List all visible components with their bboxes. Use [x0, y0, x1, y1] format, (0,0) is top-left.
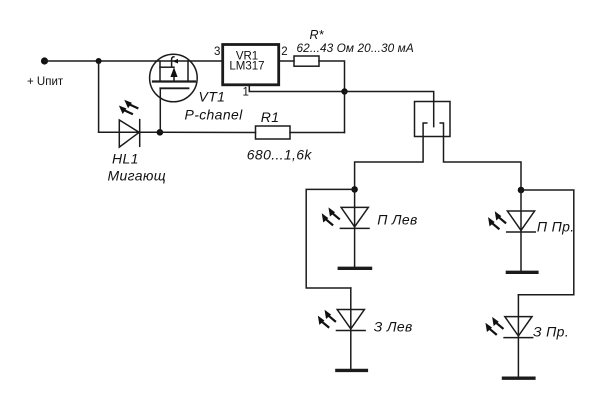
- svg-text:HL1: HL1: [112, 151, 139, 167]
- LED З Пр.: [483, 295, 533, 377]
- LED HL1: [99, 97, 160, 147]
- ground П Лев: [339, 267, 370, 270]
- wire pin 1: [249, 85, 344, 92]
- svg-text:+ Uпит: + Uпит: [27, 76, 64, 88]
- wire pin 2 to R*: [279, 60, 294, 62]
- svg-text:З Лев: З Лев: [374, 319, 413, 335]
- svg-text:П Пр.: П Пр.: [537, 219, 575, 235]
- wire node to switch: [345, 92, 434, 127]
- svg-text:Мигающ: Мигающ: [108, 168, 167, 184]
- svg-text:R1: R1: [261, 109, 280, 125]
- svg-text:LM317: LM317: [229, 60, 264, 72]
- node gate/HL1 junction: [157, 129, 164, 136]
- LED З Лев: [315, 288, 365, 369]
- wire left drop to HL1: [99, 61, 120, 132]
- svg-text:2: 2: [281, 46, 287, 58]
- resistor R*: [294, 56, 319, 66]
- node pin1/R* junction: [341, 88, 347, 94]
- terminal + Uпит: [41, 57, 48, 64]
- svg-text:П Лев: П Лев: [377, 212, 417, 228]
- svg-text:62...43 Ом 20...30 мА: 62...43 Ом 20...30 мА: [297, 41, 414, 55]
- LED П Лев: [319, 189, 369, 266]
- wire HL1 node to R1: [160, 131, 256, 133]
- svg-text:P-chanel: P-chanel: [185, 107, 244, 123]
- svg-text:R*: R*: [310, 28, 325, 42]
- ground П Пр.: [507, 271, 537, 274]
- svg-text:VT1: VT1: [199, 89, 226, 105]
- node right lamp junction: [518, 187, 525, 194]
- regulator VR1 LM317: [223, 45, 279, 85]
- wire R1 to vertical: [290, 132, 345, 134]
- svg-text:З Пр.: З Пр.: [533, 324, 569, 340]
- svg-text:3: 3: [214, 46, 220, 58]
- LED П Пр.: [485, 190, 535, 271]
- wire top rail from terminal to VR1 pin 3: [45, 60, 223, 62]
- transistor VT1 (P-MOSFET): [150, 54, 198, 132]
- node junction supply: [96, 58, 102, 64]
- ground З Лев: [337, 369, 367, 372]
- wire R* to node: [319, 61, 345, 92]
- resistor R1: [256, 126, 291, 139]
- wire node down to R1 line: [344, 92, 346, 133]
- wire branch to З Лев: [306, 189, 354, 288]
- svg-text:680...1,6k: 680...1,6k: [247, 147, 313, 163]
- connector/switch box: [355, 102, 521, 191]
- ground З Пр.: [504, 377, 534, 380]
- node left lamp junction: [351, 186, 358, 193]
- wire branch to З Пр.: [518, 190, 573, 295]
- svg-text:1: 1: [243, 87, 249, 99]
